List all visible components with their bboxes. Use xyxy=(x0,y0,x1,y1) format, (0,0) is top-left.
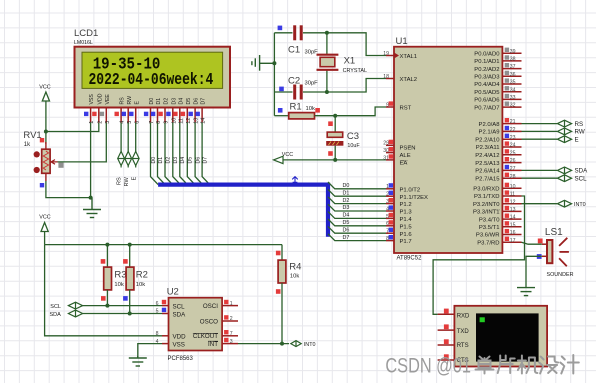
svg-text:D5: D5 xyxy=(343,220,350,226)
ground (below U2) xyxy=(129,356,147,366)
terminal SDA (right of U1) xyxy=(522,167,589,175)
LCD pin 8 D1 xyxy=(151,98,162,124)
wire bus tap D5 to U1 P1.5 xyxy=(328,219,386,226)
resistor R3 xyxy=(101,245,127,306)
svg-text:U1: U1 xyxy=(396,36,408,47)
svg-text:30: 30 xyxy=(383,148,389,154)
terminal E (right of U1) xyxy=(522,136,579,144)
terminal E (below LCD) xyxy=(131,123,139,181)
svg-text:XTAL2: XTAL2 xyxy=(400,77,418,83)
potentiometer RV1 xyxy=(23,130,63,187)
svg-text:10: 10 xyxy=(510,184,516,190)
wire bus tap D4 to U1 P1.4 xyxy=(328,212,386,219)
U1 pin 33 P0.6/AD6 xyxy=(474,94,521,104)
wire LCD D2 to bus xyxy=(165,123,173,185)
wire bus tap D3 to U1 P1.3 xyxy=(328,204,386,211)
LCD pin 10 D3 xyxy=(166,98,177,124)
svg-text:RS: RS xyxy=(120,97,126,105)
U1 pin 12 P3.2/INT0 xyxy=(473,198,522,208)
svg-text:RW: RW xyxy=(124,177,130,187)
svg-text:13: 13 xyxy=(510,207,516,213)
wire RV1 bottom to ground rail xyxy=(46,181,91,198)
wire LCD VDD down/left to VCC xyxy=(46,123,99,132)
terminal SDA (left) xyxy=(50,310,83,318)
U1 pin 31 EA xyxy=(383,154,407,166)
svg-text:D0: D0 xyxy=(151,157,157,164)
U1 pin 30 ALE xyxy=(383,147,410,159)
svg-text:D6: D6 xyxy=(194,98,200,105)
IC U2 PCF8563 xyxy=(167,287,222,363)
U2 pin 6 SCL xyxy=(156,300,185,311)
terminal RS (below LCD) xyxy=(116,123,124,185)
svg-text:D1: D1 xyxy=(343,190,350,196)
U1 pin 29 PSEN xyxy=(383,140,415,152)
svg-text:VDD: VDD xyxy=(97,93,103,104)
svg-text:LM016L: LM016L xyxy=(74,40,93,46)
svg-text:R4: R4 xyxy=(289,262,301,273)
U1 pin 19 XTAL1 xyxy=(383,51,417,60)
svg-text:D4: D4 xyxy=(178,98,184,105)
svg-text:P3.2/INT0: P3.2/INT0 xyxy=(473,202,500,208)
svg-text:31: 31 xyxy=(383,155,389,161)
U1 pin 10 P3.0/RXD xyxy=(473,183,521,193)
svg-text:23: 23 xyxy=(510,135,516,141)
svg-text:6: 6 xyxy=(156,301,159,307)
svg-text:21: 21 xyxy=(510,119,516,125)
node R3/SCL junction xyxy=(105,304,109,308)
svg-text:U2: U2 xyxy=(167,287,179,298)
terminal INT0 (bottom) xyxy=(291,341,316,348)
svg-text:VSS: VSS xyxy=(173,341,185,348)
svg-text:D0: D0 xyxy=(149,98,155,105)
svg-text:D5: D5 xyxy=(188,157,194,164)
virtual terminal (serial monitor) xyxy=(454,306,547,367)
U2 pin 2 OSCO xyxy=(200,315,238,325)
node C2/crystal junction xyxy=(325,90,329,94)
wire bus tap D2 to U1 P1.2 xyxy=(328,197,386,204)
svg-text:37: 37 xyxy=(510,64,516,70)
svg-text:P3.4/T0: P3.4/T0 xyxy=(479,217,500,223)
virtual terminal pin stub xyxy=(438,339,455,345)
svg-text:VDD: VDD xyxy=(173,334,187,341)
U1 pin 16 P3.6/WR xyxy=(476,229,522,239)
svg-text:D6: D6 xyxy=(343,227,350,233)
wire RV1 wiper to LCD VEE xyxy=(58,123,107,162)
svg-text:P2.1/A9: P2.1/A9 xyxy=(479,130,500,136)
svg-text:10k: 10k xyxy=(306,106,315,112)
U2 pin 1 OSCI xyxy=(203,300,238,310)
U1 pin 8 P1.7 xyxy=(386,235,412,245)
wire SDA rail xyxy=(83,313,163,315)
U1 pin 17 P3.7/RD xyxy=(477,237,521,247)
terminal RW (below LCD) xyxy=(124,123,132,187)
wire VCC rail down to U2 VDD xyxy=(45,245,162,336)
U1 pin 3 P1.2 xyxy=(386,198,412,208)
LCD pin 13 D6 xyxy=(189,98,200,124)
U2 pin 3 INT xyxy=(208,338,238,348)
svg-text:E: E xyxy=(134,101,140,105)
svg-text:P1.7: P1.7 xyxy=(400,239,412,245)
sounder LS1 xyxy=(537,227,574,278)
resistor R4 xyxy=(276,245,302,344)
wire LCD D4 to bus xyxy=(180,123,188,185)
svg-text:30pF: 30pF xyxy=(305,81,319,87)
resistor R1 xyxy=(274,102,335,119)
svg-text:SDA: SDA xyxy=(50,312,62,318)
svg-text:INT0: INT0 xyxy=(574,202,586,208)
svg-text:P0.7/AD7: P0.7/AD7 xyxy=(474,105,499,111)
LCD pin 5 RW xyxy=(122,96,133,124)
wire U2 INT to INT0 terminal xyxy=(238,343,289,345)
U1 pin 26 P2.5/A13 xyxy=(475,157,521,167)
svg-text:P1.4: P1.4 xyxy=(400,217,413,223)
svg-text:VSS: VSS xyxy=(89,94,95,105)
wire sounder to ground xyxy=(526,256,542,287)
U1 pin 39 P0.0/AD0 xyxy=(474,48,521,58)
resistor R2 xyxy=(123,245,148,314)
U2 pin 8 VDD xyxy=(156,331,186,341)
svg-text:AT89C52: AT89C52 xyxy=(397,256,423,262)
svg-text:25: 25 xyxy=(510,150,516,156)
svg-text:P3.7/RD: P3.7/RD xyxy=(477,240,499,246)
svg-text:27: 27 xyxy=(510,166,516,172)
svg-text:RW: RW xyxy=(575,129,585,136)
capacitor C3 (electrolytic) xyxy=(326,116,360,160)
svg-text:P2.6/A14: P2.6/A14 xyxy=(475,169,500,175)
svg-text:OSCI: OSCI xyxy=(203,303,218,310)
ground (left of C1/C2) xyxy=(252,55,275,71)
node C1/crystal junction xyxy=(325,31,329,35)
svg-text:P1.0/T2: P1.0/T2 xyxy=(400,187,421,193)
watermark glyph pian xyxy=(498,356,515,374)
svg-text:1: 1 xyxy=(230,301,233,307)
svg-text:E: E xyxy=(131,177,137,181)
terminal INT0 (right of U1) xyxy=(522,200,586,208)
svg-text:D1: D1 xyxy=(156,98,162,105)
svg-text:LS1: LS1 xyxy=(545,227,563,238)
svg-text:D7: D7 xyxy=(201,98,207,105)
svg-text:P3.6/WR: P3.6/WR xyxy=(476,233,500,239)
svg-text:P2.7/A15: P2.7/A15 xyxy=(475,176,500,182)
wire LCD D0 to bus xyxy=(151,123,159,185)
svg-text:LCD1: LCD1 xyxy=(74,28,98,39)
node R4/INT junction xyxy=(280,342,284,346)
LCD pin 6 E xyxy=(129,101,140,124)
svg-text:11: 11 xyxy=(510,192,515,198)
svg-text:D2: D2 xyxy=(164,98,170,105)
svg-text:29: 29 xyxy=(383,141,389,147)
svg-text:P1.2: P1.2 xyxy=(400,202,412,208)
svg-text:10uF: 10uF xyxy=(347,143,360,149)
wire R1 to RST xyxy=(335,107,386,116)
svg-text:1k: 1k xyxy=(24,142,31,148)
terminal RW (right of U1) xyxy=(522,128,585,136)
svg-text:P1.3: P1.3 xyxy=(400,210,413,216)
svg-text:P2.3/A11: P2.3/A11 xyxy=(476,145,500,151)
LCD pin 3 VEE xyxy=(100,94,111,124)
svg-text:EA: EA xyxy=(400,161,408,167)
wire C1 to XTAL1 xyxy=(327,33,386,56)
LCD pin 2 VDD xyxy=(92,93,103,124)
svg-text:CSDN @01: CSDN @01 xyxy=(385,354,471,377)
U1 pin 21 P2.0/A8 xyxy=(479,118,522,128)
U1 pin 27 P2.6/A14 xyxy=(475,165,521,175)
svg-text:28: 28 xyxy=(510,174,516,180)
virtual terminal pin stub xyxy=(438,309,455,315)
watermark glyph dan xyxy=(476,357,494,374)
svg-text:D3: D3 xyxy=(173,157,179,164)
svg-text:33: 33 xyxy=(510,95,516,101)
svg-text:2: 2 xyxy=(230,316,233,322)
U1 pin 11 P3.1/TXD xyxy=(474,190,522,200)
svg-text:P1.6: P1.6 xyxy=(400,232,413,238)
svg-text:P3.1/TXD: P3.1/TXD xyxy=(474,194,500,200)
svg-text:16: 16 xyxy=(510,230,516,236)
svg-text:SDA: SDA xyxy=(575,168,589,175)
svg-text:SCL: SCL xyxy=(50,304,61,310)
U1 pin 35 P0.4/AD4 xyxy=(474,78,521,88)
svg-text:P3.5/T1: P3.5/T1 xyxy=(479,225,500,231)
bus anchor mark xyxy=(292,177,298,183)
svg-text:PSEN: PSEN xyxy=(400,146,416,152)
svg-text:CRYSTAL: CRYSTAL xyxy=(343,68,367,74)
U1 pin 28 P2.7/A15 xyxy=(475,173,521,183)
node VDD junction xyxy=(44,130,48,134)
svg-text:30pF: 30pF xyxy=(305,50,319,56)
U1 pin 36 P0.3/AD3 xyxy=(474,71,521,81)
svg-text:CLKOUT: CLKOUT xyxy=(193,333,218,340)
U1 pin 22 P2.1/A9 xyxy=(479,126,522,136)
U1 pin 4 P1.3 xyxy=(386,205,412,215)
svg-text:26: 26 xyxy=(510,158,516,164)
svg-text:P0.3/AD3: P0.3/AD3 xyxy=(474,75,500,81)
svg-text:7: 7 xyxy=(230,331,233,337)
svg-text:C3: C3 xyxy=(347,131,359,142)
svg-text:D2: D2 xyxy=(343,198,350,204)
wire C2 to XTAL2 xyxy=(327,79,386,93)
U1 pin 24 P2.3/A11 xyxy=(476,141,522,151)
terminal SCL (left) xyxy=(50,302,82,310)
svg-text:INT0: INT0 xyxy=(304,342,316,348)
wire LCD VSS down to ground rail xyxy=(90,123,92,198)
svg-text:3: 3 xyxy=(230,339,233,345)
terminal RS (right of U1) xyxy=(522,120,584,128)
LCD pin 7 D0 xyxy=(144,98,155,124)
svg-text:10k: 10k xyxy=(136,282,145,288)
ground (below sounder) xyxy=(517,287,535,296)
svg-text:24: 24 xyxy=(510,143,516,149)
wire VCC to EA pin 31 xyxy=(283,159,386,161)
svg-text:C1: C1 xyxy=(288,45,300,56)
svg-text:D3: D3 xyxy=(171,98,177,105)
svg-text:P2.4/A12: P2.4/A12 xyxy=(475,153,499,159)
svg-text:12: 12 xyxy=(510,199,516,205)
wire bus tap D6 to U1 P1.6 xyxy=(328,226,386,233)
svg-text:TXD: TXD xyxy=(457,329,470,335)
svg-text:ALE: ALE xyxy=(400,153,411,159)
svg-text:P0.5/AD5: P0.5/AD5 xyxy=(474,90,500,96)
LCD pin 1 VSS xyxy=(84,94,95,124)
svg-text:RTS: RTS xyxy=(457,343,469,349)
svg-text:RS: RS xyxy=(575,121,584,128)
node R2 top junction xyxy=(128,243,132,247)
svg-text:P2.2/A10: P2.2/A10 xyxy=(475,137,500,143)
U1 pin 6 P1.5 xyxy=(386,220,412,230)
wire VCC rail xyxy=(45,244,282,246)
node R2/SDA junction xyxy=(128,312,132,316)
U1 pin 13 P3.3/INT1 xyxy=(473,206,522,216)
ground (below LCD) xyxy=(83,198,101,218)
svg-text:18: 18 xyxy=(383,74,389,80)
svg-text:P1.1/T2EX: P1.1/T2EX xyxy=(400,195,429,201)
bus (data bus D0-D7) xyxy=(158,185,328,237)
svg-text:D2: D2 xyxy=(165,157,171,164)
U1 pin 9 RST xyxy=(386,101,412,111)
svg-text:VCC: VCC xyxy=(39,85,50,91)
U1 pin 5 P1.4 xyxy=(386,213,412,223)
wire LCD D7 to bus xyxy=(202,123,210,185)
capacitor C1 xyxy=(274,25,327,55)
svg-text:XTAL1: XTAL1 xyxy=(400,54,418,60)
node ground-vertical junction xyxy=(272,61,276,65)
LCD pin 12 D5 xyxy=(181,98,192,124)
wire LCD D3 to bus xyxy=(173,123,181,185)
U2 pin 4 VSS xyxy=(156,339,185,349)
svg-text:22: 22 xyxy=(510,127,516,133)
svg-text:P1.5: P1.5 xyxy=(400,224,413,230)
terminal SCL (right of U1) xyxy=(522,175,588,183)
svg-text:RST: RST xyxy=(400,106,412,112)
LCD screen xyxy=(82,52,223,88)
svg-text:X1: X1 xyxy=(344,56,356,67)
wire VCC to RV1 top / VDD branch xyxy=(45,132,47,145)
svg-text:32: 32 xyxy=(510,103,516,109)
watermark glyph she xyxy=(539,357,558,374)
U1 pin 38 P0.1/AD1 xyxy=(474,55,521,65)
svg-text:D1: D1 xyxy=(158,157,164,164)
wire bus tap D1 to U1 P1.1 xyxy=(328,189,386,196)
U1 pin 7 P1.6 xyxy=(386,228,412,238)
svg-text:D0: D0 xyxy=(343,183,350,189)
svg-text:SCL: SCL xyxy=(575,176,588,183)
power VCC (EA line) xyxy=(274,152,294,164)
wire U1 TXD to terminal RXD xyxy=(433,196,524,314)
svg-text:R3: R3 xyxy=(114,270,126,281)
svg-text:SOUNDER: SOUNDER xyxy=(547,272,574,278)
svg-text:RXD: RXD xyxy=(457,314,470,320)
svg-text:8: 8 xyxy=(156,331,159,337)
svg-text:P3.3/INT1: P3.3/INT1 xyxy=(473,210,500,216)
svg-text:P2.5/A13: P2.5/A13 xyxy=(475,161,500,167)
node C3/EA junction xyxy=(333,158,337,162)
svg-text:19: 19 xyxy=(383,51,389,57)
svg-text:P0.4/AD4: P0.4/AD4 xyxy=(474,82,500,88)
node R3 top junction xyxy=(105,243,109,247)
U2 pin 5 SDA xyxy=(156,308,186,319)
U1 pin 37 P0.2/AD2 xyxy=(474,63,521,73)
svg-text:SDA: SDA xyxy=(173,311,187,318)
svg-text:D7: D7 xyxy=(343,235,350,241)
wire LCD D5 to bus xyxy=(187,123,195,185)
wire SCL rail xyxy=(83,305,163,307)
node R1/C3 junction xyxy=(333,114,337,118)
svg-text:35: 35 xyxy=(510,80,516,86)
svg-text:38: 38 xyxy=(510,57,516,63)
virtual terminal pin stub xyxy=(438,324,455,330)
svg-text:5: 5 xyxy=(156,309,159,315)
svg-text:D6: D6 xyxy=(195,157,201,164)
node ground rail junction xyxy=(89,196,93,200)
power VCC (lower-left) xyxy=(39,215,50,245)
LCD pin 4 RS xyxy=(115,97,126,124)
watermark glyph ji2 xyxy=(560,355,579,374)
svg-text:34: 34 xyxy=(510,87,516,93)
svg-text:INT: INT xyxy=(208,341,218,348)
svg-text:E: E xyxy=(575,137,579,144)
svg-text:P0.0/AD0: P0.0/AD0 xyxy=(474,51,500,57)
LCD pin 9 D2 xyxy=(158,98,169,124)
svg-text:2022-04-06week:4: 2022-04-06week:4 xyxy=(89,69,214,89)
svg-text:SCL: SCL xyxy=(173,303,186,310)
svg-text:10k: 10k xyxy=(290,274,299,280)
wire U1 P3.7 to sounder xyxy=(522,242,542,244)
svg-text:D7: D7 xyxy=(202,157,208,164)
svg-text:D4: D4 xyxy=(180,157,186,164)
watermark glyph ji xyxy=(518,356,538,374)
U1 pin 15 P3.5/T1 xyxy=(479,221,522,231)
LCD LCD1 body xyxy=(75,47,231,108)
wire U2 VSS to ground xyxy=(138,344,162,358)
LCD pin 11 D4 xyxy=(173,98,184,124)
svg-text:14: 14 xyxy=(510,215,516,221)
U1 pin 2 P1.1/T2EX xyxy=(386,191,428,201)
svg-text:P0.6/AD6: P0.6/AD6 xyxy=(474,98,500,104)
svg-text:39: 39 xyxy=(510,49,516,55)
svg-text:OSCO: OSCO xyxy=(200,318,218,325)
svg-text:RW: RW xyxy=(127,96,133,105)
svg-text:17: 17 xyxy=(510,238,516,244)
svg-text:RV1: RV1 xyxy=(23,130,41,141)
svg-text:15: 15 xyxy=(510,222,516,228)
svg-text:VCC: VCC xyxy=(39,215,50,221)
svg-text:RS: RS xyxy=(116,177,122,185)
svg-text:D4: D4 xyxy=(343,213,350,219)
wire bus tap D0 to U1 P1.0 xyxy=(328,182,386,189)
U1 pin 34 P0.5/AD5 xyxy=(474,86,521,96)
power VCC (top-left) xyxy=(39,85,50,132)
U1 pin 23 P2.2/A10 xyxy=(475,134,521,144)
crystal X1 xyxy=(317,33,367,92)
U1 pin 18 XTAL2 xyxy=(383,74,417,83)
svg-text:36: 36 xyxy=(510,72,516,78)
svg-text:R1: R1 xyxy=(290,102,302,113)
svg-text:D5: D5 xyxy=(186,98,192,105)
capacitor C2 xyxy=(274,76,327,100)
svg-text:VEE: VEE xyxy=(105,94,111,105)
U1 pin 1 P1.0/T2 xyxy=(386,183,420,193)
svg-text:10k: 10k xyxy=(114,282,123,288)
U1 pin 25 P2.4/A12 xyxy=(475,149,521,159)
svg-text:P0.1/AD1: P0.1/AD1 xyxy=(474,59,499,65)
svg-text:PCF8563: PCF8563 xyxy=(168,356,194,362)
svg-text:P0.2/AD2: P0.2/AD2 xyxy=(474,67,499,73)
svg-text:P3.0/RXD: P3.0/RXD xyxy=(473,187,499,193)
svg-text:P2.0/A8: P2.0/A8 xyxy=(479,122,501,128)
U1 pin 32 P0.7/AD7 xyxy=(474,102,521,112)
U1 pin 14 P3.4/T0 xyxy=(479,214,522,224)
wire ground vertical (C1/C2/R1 left) xyxy=(273,33,275,116)
virtual terminal pin stub xyxy=(438,354,455,360)
